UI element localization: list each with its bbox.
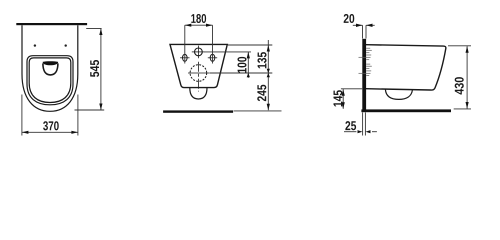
seat ring inner — [29, 58, 71, 103]
dim 370 — [22, 95, 78, 136]
outlet bump — [190, 88, 207, 99]
toilet profile — [366, 45, 446, 100]
dim text 245 — [257, 85, 266, 101]
dim text 370 — [43, 121, 59, 130]
outlet circle (dashed) — [188, 62, 210, 92]
ext lines right of middle view — [205, 45, 273, 73]
dim 430 — [448, 46, 471, 109]
dim text 25 — [345, 121, 356, 130]
flush bowl arc — [43, 63, 58, 75]
dim 100 — [247, 52, 249, 78]
trap arc — [385, 89, 412, 99]
dim text 430 — [455, 77, 464, 94]
dim 25 — [344, 112, 377, 135]
seat ring outer — [27, 56, 73, 105]
floor line middle — [163, 110, 233, 112]
fixing slots — [180, 54, 217, 61]
dim text 135 — [257, 52, 266, 68]
seat fixing dots — [34, 44, 36, 46]
dim 180 — [185, 25, 213, 63]
inlet circle — [192, 46, 205, 59]
dim text 20 — [344, 14, 355, 23]
wall line — [16, 23, 87, 25]
floor — [361, 109, 451, 112]
dim 20 — [353, 25, 375, 38]
dim text 545 — [90, 60, 99, 77]
wall — [362, 39, 366, 112]
bolt symbols — [359, 48, 372, 75]
dim text 100 — [237, 57, 246, 73]
bowl outline — [22, 25, 78, 111]
flush inlet filled crescent — [43, 61, 59, 65]
dim 135 / 245 shared line — [267, 40, 269, 110]
dim 545 — [75, 29, 105, 111]
dim text 180 — [191, 14, 206, 23]
body trapezoid — [170, 44, 227, 87]
dim text 145 — [334, 90, 343, 106]
dim 145 — [341, 89, 362, 109]
